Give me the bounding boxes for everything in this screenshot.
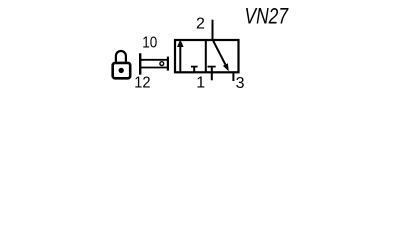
svg-text:VN27: VN27	[245, 4, 289, 29]
svg-text:2: 2	[196, 15, 205, 32]
svg-text:12: 12	[134, 75, 150, 92]
svg-text:3: 3	[236, 75, 245, 92]
svg-text:1: 1	[196, 74, 205, 91]
svg-text:10: 10	[142, 35, 157, 52]
